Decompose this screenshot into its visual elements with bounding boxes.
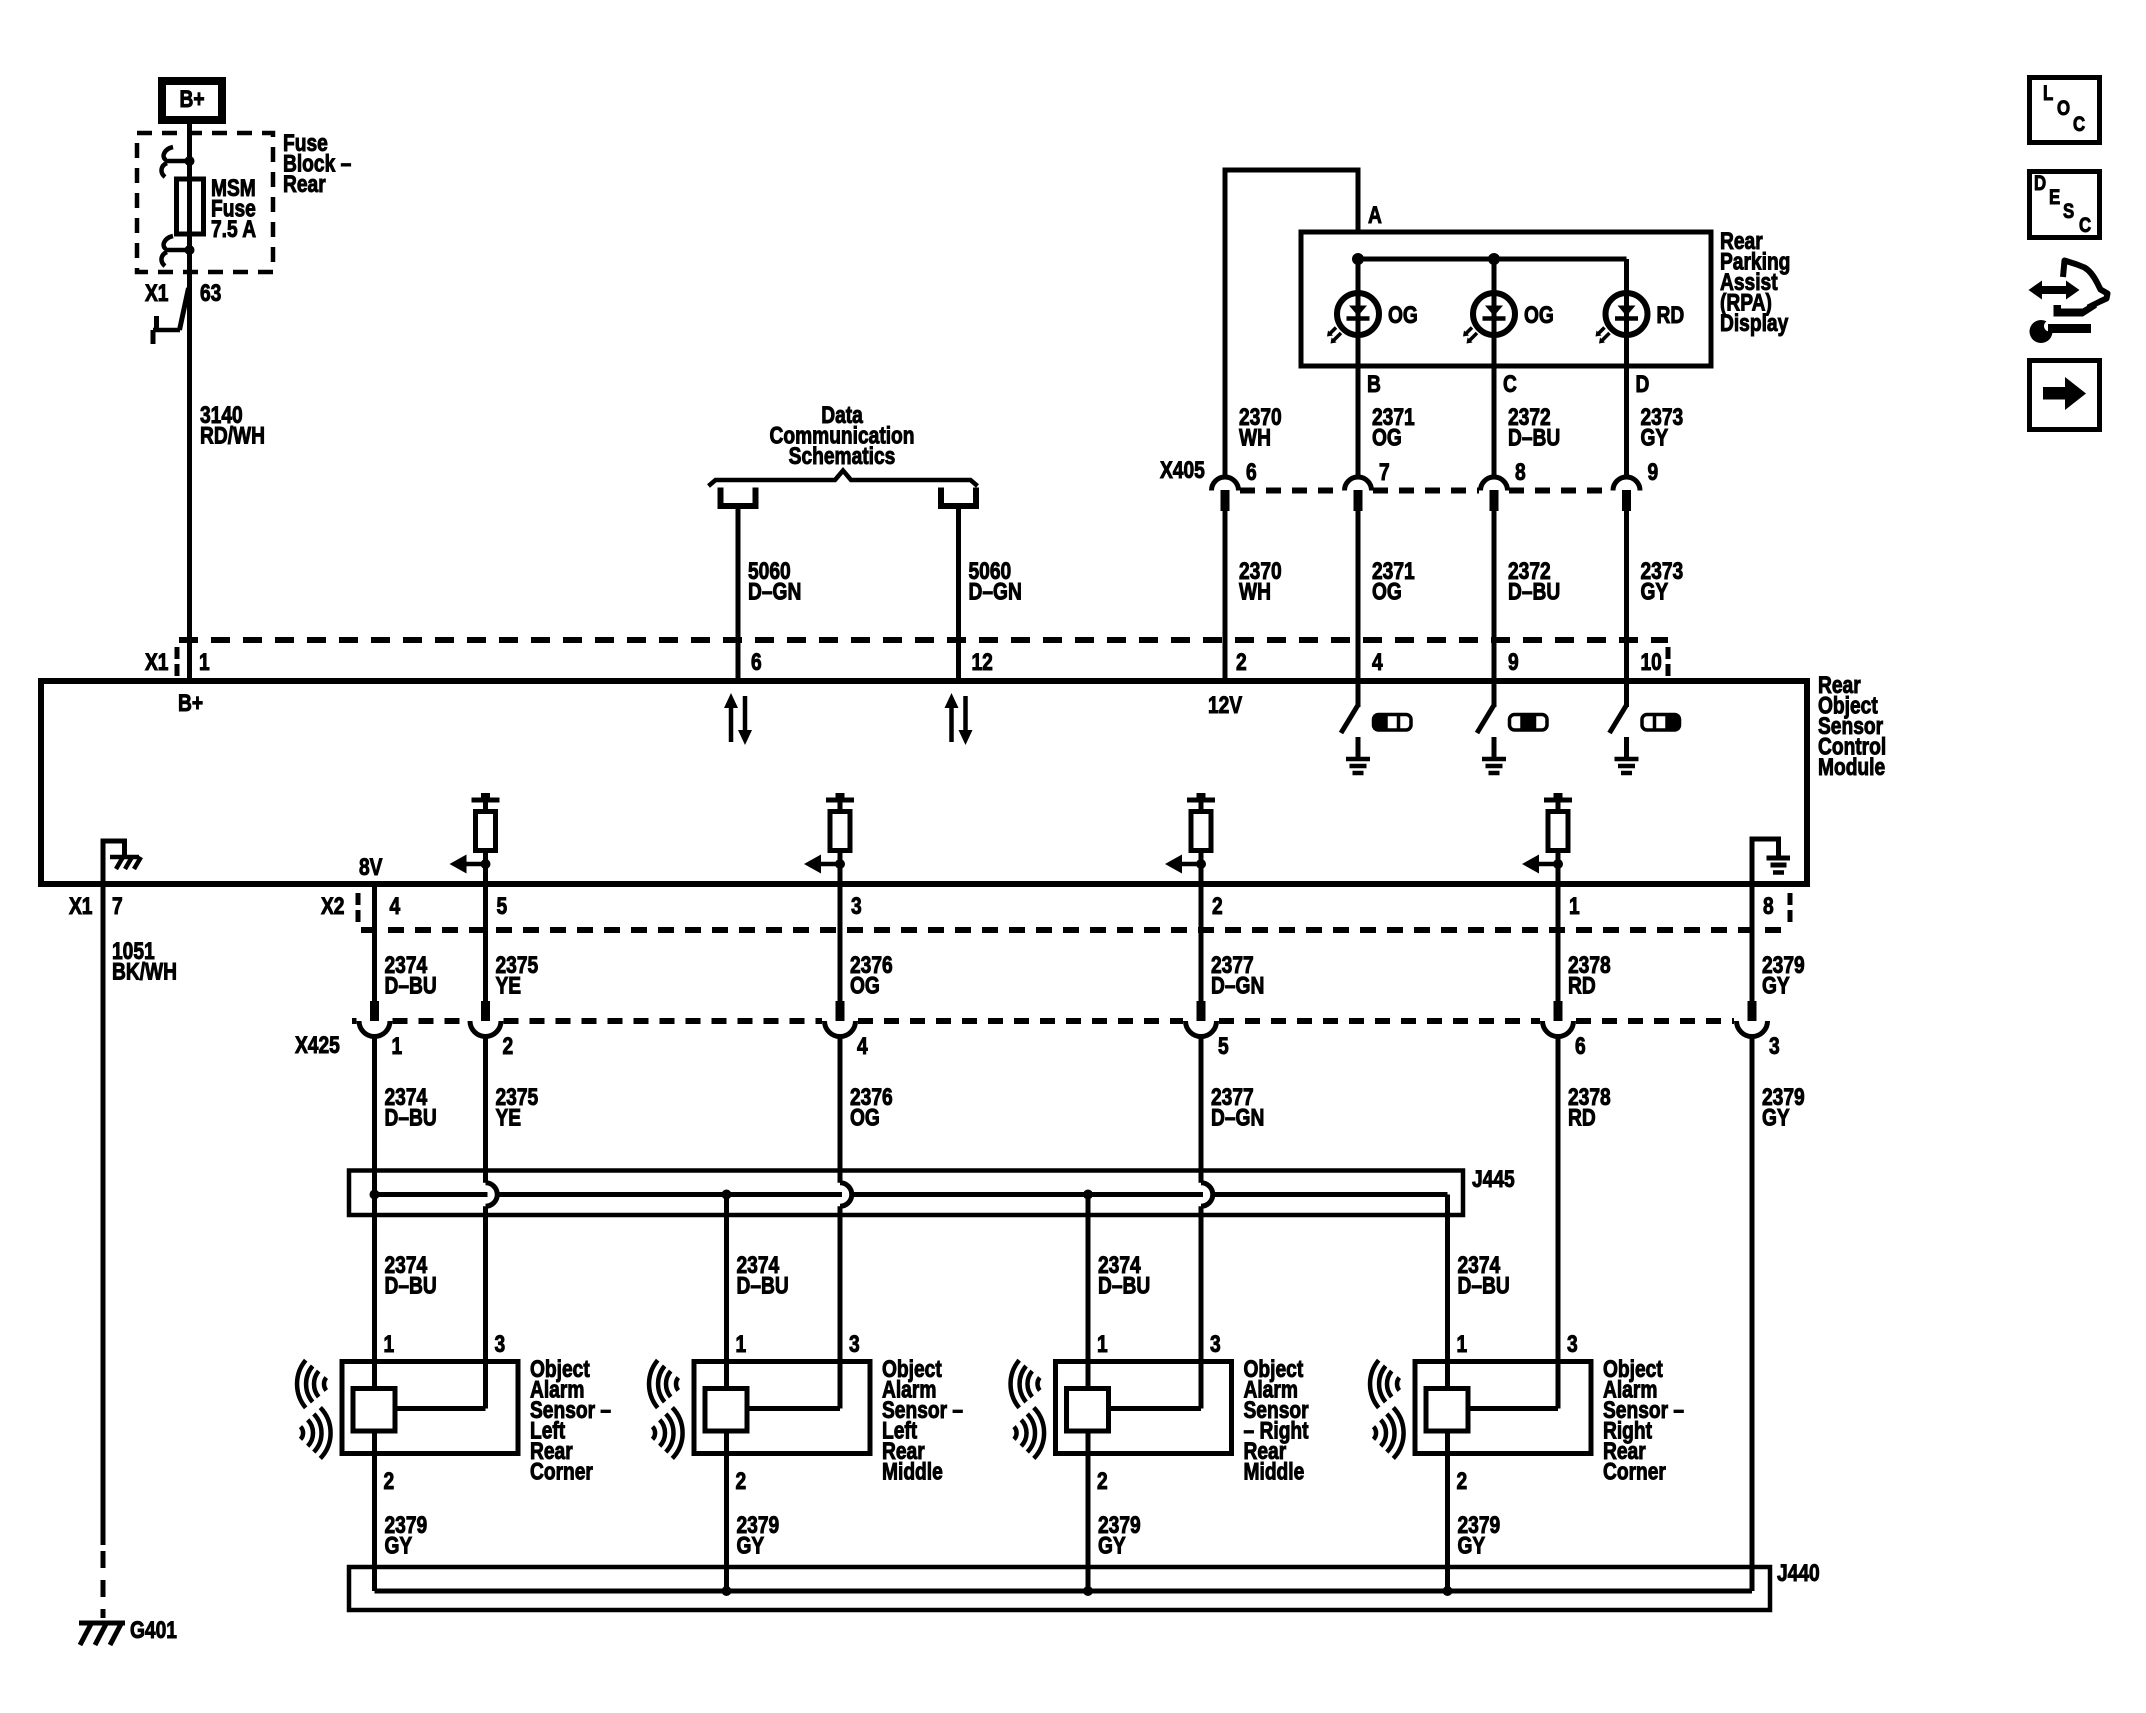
rear object sensor control module box: [41, 681, 1807, 884]
svg-text:GY: GY: [1641, 423, 1669, 451]
connector X425 terminal 3: [1748, 1001, 1757, 1021]
sensor left rear corner transducer square: [353, 1389, 395, 1432]
fuse MSM 7.5A element: [177, 179, 204, 234]
sensor left rear middle internal link: [746, 1406, 840, 1411]
svg-text:Module: Module: [1818, 753, 1885, 781]
sensor right rear middle internal link: [1108, 1406, 1202, 1411]
svg-text:Rear: Rear: [283, 170, 326, 198]
svg-text:OG: OG: [850, 1103, 880, 1131]
module internal data arrows left: [729, 706, 734, 742]
svg-text:E: E: [2049, 186, 2060, 209]
svg-text:X405: X405: [1160, 456, 1205, 484]
svg-text:2: 2: [384, 1467, 395, 1495]
svg-text:5: 5: [497, 892, 508, 920]
brace for data communication: [709, 471, 978, 487]
wire - 2375 YE below X425: [483, 1037, 488, 1183]
wire - 2379 GY sensor left rear corner return: [372, 1431, 377, 1591]
fuse block upper terminal hook: [164, 147, 173, 160]
svg-text:7: 7: [1379, 458, 1390, 486]
wire - 2379 GY sensor right rear middle return: [1086, 1431, 1091, 1591]
connector X425 terminal 6: [1554, 1001, 1563, 1021]
svg-text:X425: X425: [295, 1031, 340, 1059]
svg-text:C: C: [1503, 370, 1517, 398]
connector X2 dashed line: [361, 927, 1787, 933]
splice pack J440 box: [349, 1567, 1770, 1610]
svg-text:1: 1: [1569, 892, 1580, 920]
svg-text:Display: Display: [1720, 309, 1788, 337]
connector X405 terminal 6: [1212, 477, 1239, 491]
wire - 2375 YE module to X425: [483, 884, 488, 1003]
wire - 2379 GY sensor right rear corner return: [1445, 1431, 1450, 1591]
power feed B+ box: [162, 81, 222, 120]
icon vehicle-repair pictogram: [2040, 286, 2068, 294]
junction on J445 at sensor 3 feed: [1083, 1190, 1093, 1200]
svg-text:D–BU: D–BU: [1508, 577, 1560, 605]
svg-text:2: 2: [503, 1032, 514, 1060]
splice pack J445 box: [349, 1171, 1463, 1216]
svg-text:6: 6: [751, 648, 762, 676]
junction on J445 at sensor 1 feed: [370, 1190, 380, 1200]
wire - 2376 OG below X425: [838, 1037, 843, 1183]
svg-text:GY: GY: [1641, 577, 1669, 605]
junction on J440 at sensor 4: [1443, 1586, 1453, 1596]
module internal pull-up resistor (pin 1): [1554, 793, 1563, 799]
display internal supply bus: [1358, 257, 1627, 262]
connector X1 separator right: [1666, 647, 1671, 659]
module internal ground (X2-8): [1752, 839, 1779, 884]
svg-text:D–BU: D–BU: [385, 971, 437, 999]
fuse block - rear dashed outline: [137, 133, 273, 272]
module internal ground (X1-7): [103, 841, 125, 884]
object alarm sensor - right rear corner box: [1415, 1362, 1591, 1454]
svg-text:9: 9: [1508, 648, 1519, 676]
junction on J440 at sensor 2: [722, 1586, 732, 1596]
LED indicator B (OG): [1356, 259, 1361, 366]
wire - 2379 GY sensor left rear middle return: [724, 1431, 729, 1591]
svg-text:1: 1: [1457, 1330, 1468, 1358]
svg-text:10: 10: [1641, 648, 1662, 676]
junction on J440 at sensor 3: [1083, 1586, 1093, 1596]
module internal switch+indicator (pin 10): [1624, 681, 1629, 707]
wire - 1051 BK/WH to ground: [101, 884, 106, 1545]
sensor right rear corner internal link: [1467, 1406, 1558, 1411]
wire - 2372 D-BU display C: [1492, 366, 1497, 478]
svg-text:1: 1: [1097, 1330, 1108, 1358]
svg-text:D–BU: D–BU: [1458, 1271, 1510, 1299]
svg-text:D–BU: D–BU: [1508, 423, 1560, 451]
svg-text:OG: OG: [1524, 301, 1554, 329]
svg-text:3: 3: [1769, 1032, 1780, 1060]
ground G401 symbol: [79, 1621, 125, 1626]
svg-text:B+: B+: [178, 689, 203, 717]
sensor left rear middle ultrasonic waves: [676, 1378, 678, 1391]
wire - 2374 D-BU branch to sensor 3: [1086, 1195, 1091, 1389]
wire - 2374 D–BU module to X425: [372, 884, 377, 1003]
junction on J445 at sensor 2 feed: [722, 1190, 732, 1200]
sensor left rear middle transducer square: [705, 1389, 747, 1432]
svg-text:B+: B+: [179, 85, 204, 113]
svg-text:1: 1: [736, 1330, 747, 1358]
wire - 2378 RD module to X425: [1556, 884, 1561, 1003]
svg-text:X1: X1: [145, 648, 168, 676]
off-page connector stub (left data wire): [721, 488, 756, 507]
svg-text:C: C: [2073, 113, 2085, 136]
LED indicator D (RD): [1624, 259, 1629, 366]
svg-text:1: 1: [199, 648, 210, 676]
svg-text:WH: WH: [1239, 577, 1271, 605]
icon next-page arrow box: [2030, 361, 2100, 430]
svg-text:Middle: Middle: [1244, 1457, 1305, 1485]
svg-text:GY: GY: [385, 1531, 413, 1559]
svg-text:2: 2: [1212, 892, 1223, 920]
connector X1 separator left: [175, 647, 180, 659]
connector X405 terminal 7: [1345, 477, 1372, 491]
module internal pull-up resistor (pin 5): [481, 793, 490, 799]
svg-text:8: 8: [1763, 892, 1774, 920]
svg-text:Middle: Middle: [882, 1457, 943, 1485]
svg-text:B: B: [1367, 370, 1381, 398]
svg-text:Corner: Corner: [1603, 1457, 1666, 1485]
module internal pull-up resistor (pin 2): [1197, 793, 1206, 799]
splice pack J440 bus: [375, 1589, 1753, 1594]
svg-text:D–GN: D–GN: [1211, 971, 1264, 999]
svg-text:D–GN: D–GN: [1211, 1103, 1264, 1131]
svg-text:D–GN: D–GN: [969, 577, 1022, 605]
wire - 2371 OG display B: [1356, 366, 1361, 478]
svg-text:D–BU: D–BU: [1098, 1271, 1150, 1299]
svg-text:GY: GY: [1458, 1531, 1486, 1559]
svg-text:D–GN: D–GN: [748, 577, 801, 605]
LED indicator C (OG): [1492, 259, 1497, 366]
splice pack J445 bus: [375, 1192, 488, 1197]
module internal data arrows right: [949, 706, 954, 742]
wire - display feed (pin A to X405-6 via top run): [1356, 168, 1361, 233]
svg-text:OG: OG: [1372, 577, 1402, 605]
wire - 2374 D-BU branch to sensor 2: [724, 1195, 729, 1389]
svg-text:Schematics: Schematics: [789, 442, 896, 470]
off-page connector stub (right data wire): [941, 488, 976, 507]
sensor right rear corner transducer square: [1426, 1389, 1468, 1432]
svg-text:7.5 A: 7.5 A: [211, 215, 256, 243]
svg-text:D: D: [1636, 370, 1650, 398]
svg-text:O: O: [2057, 97, 2070, 120]
svg-text:12V: 12V: [1208, 691, 1243, 719]
svg-text:3: 3: [495, 1330, 506, 1358]
connector X425 terminal 2: [481, 1001, 490, 1021]
svg-text:D–BU: D–BU: [385, 1271, 437, 1299]
connector X1-63 inline terminal symbol: [180, 288, 189, 330]
svg-text:4: 4: [390, 892, 401, 920]
sensor left rear corner internal link: [394, 1406, 486, 1411]
svg-text:63: 63: [200, 279, 221, 307]
svg-text:8V: 8V: [359, 853, 383, 881]
svg-text:WH: WH: [1239, 423, 1271, 451]
svg-text:2: 2: [736, 1467, 747, 1495]
sensor right rear middle transducer square: [1067, 1389, 1109, 1432]
connector X425 dashed tie line: [352, 1018, 357, 1024]
sensor left rear corner ultrasonic waves: [324, 1378, 326, 1391]
wire - 2376 OG module to X425: [838, 884, 843, 1003]
svg-text:YE: YE: [496, 1103, 522, 1131]
svg-text:J440: J440: [1777, 1559, 1820, 1587]
module internal switch+indicator (pin 9): [1492, 681, 1497, 707]
module internal pull-up resistor (pin 3): [836, 793, 845, 799]
svg-text:L: L: [2043, 82, 2054, 105]
svg-text:GY: GY: [1762, 1103, 1790, 1131]
svg-text:X2: X2: [321, 892, 344, 920]
wire - 2377 D–GN below X425: [1199, 1037, 1204, 1183]
svg-text:2: 2: [1097, 1467, 1108, 1495]
svg-text:J445: J445: [1472, 1165, 1515, 1193]
svg-text:GY: GY: [1098, 1531, 1126, 1559]
wire - 2373 GY display D: [1624, 366, 1629, 478]
svg-text:OG: OG: [1388, 301, 1418, 329]
wire - 2374 D–BU below X425: [372, 1037, 377, 1389]
svg-text:9: 9: [1648, 458, 1659, 486]
svg-text:X1: X1: [69, 892, 92, 920]
svg-text:RD: RD: [1568, 1103, 1596, 1131]
svg-text:3: 3: [1210, 1330, 1221, 1358]
svg-text:7: 7: [112, 892, 123, 920]
connector X425 terminal 5: [1197, 1001, 1206, 1021]
svg-text:S: S: [2063, 200, 2074, 223]
icon LOC box: [2030, 78, 2100, 143]
object alarm sensor - left rear middle box: [694, 1362, 870, 1454]
svg-text:GY: GY: [1762, 971, 1790, 999]
object alarm sensor - right rear middle box: [1056, 1362, 1232, 1454]
svg-text:5: 5: [1218, 1032, 1229, 1060]
svg-text:Corner: Corner: [530, 1457, 593, 1485]
svg-text:3: 3: [851, 892, 862, 920]
svg-text:A: A: [1368, 201, 1382, 229]
connector X405 terminal 8: [1481, 477, 1508, 491]
svg-text:G401: G401: [130, 1616, 177, 1644]
svg-text:D–BU: D–BU: [385, 1103, 437, 1131]
fuse block lower terminal hook: [164, 236, 173, 249]
svg-text:3: 3: [1567, 1330, 1578, 1358]
svg-text:12: 12: [972, 648, 993, 676]
wire - 2370 WH to module pin 2: [1223, 511, 1228, 681]
svg-text:YE: YE: [496, 971, 522, 999]
wire - 2379 GY module to X425: [1750, 884, 1755, 1003]
svg-text:D: D: [2034, 172, 2046, 195]
svg-text:1: 1: [384, 1330, 395, 1358]
module internal switch+indicator (pin 4): [1356, 681, 1361, 707]
sensor right rear corner ultrasonic waves: [1397, 1378, 1399, 1391]
connector X2 separator: [356, 893, 361, 905]
svg-text:4: 4: [1372, 648, 1383, 676]
connector X1 dashed line: [179, 637, 1668, 643]
svg-text:8: 8: [1515, 458, 1526, 486]
connector X405 terminal 9: [1613, 477, 1640, 491]
sensor right rear middle ultrasonic waves: [1037, 1378, 1039, 1391]
wire - serial data 5060 D-GN left: [736, 506, 741, 681]
object alarm sensor - left rear corner box: [342, 1362, 518, 1454]
svg-text:RD/WH: RD/WH: [200, 421, 265, 449]
svg-text:3: 3: [849, 1330, 860, 1358]
svg-text:D–BU: D–BU: [737, 1271, 789, 1299]
connector X2 separator right: [1788, 893, 1793, 905]
svg-text:6: 6: [1246, 458, 1257, 486]
svg-text:1: 1: [392, 1032, 403, 1060]
connector X425 terminal 1: [370, 1001, 379, 1021]
connector X425 terminal 4: [836, 1001, 845, 1021]
wire - 2378 RD below X425: [1556, 1037, 1561, 1409]
wire - 2374 D-BU branch to sensor 4: [1445, 1195, 1450, 1389]
svg-text:RD: RD: [1657, 301, 1685, 329]
svg-text:X1: X1: [145, 279, 168, 307]
rear parking assist display box: [1301, 232, 1711, 366]
wire - B+ feed 3140 RD/WH vertical: [187, 124, 192, 681]
svg-text:4: 4: [857, 1032, 868, 1060]
svg-text:BK/WH: BK/WH: [112, 957, 177, 985]
svg-text:C: C: [2079, 214, 2091, 237]
svg-text:6: 6: [1575, 1032, 1586, 1060]
wire - 2379 GY below X425: [1750, 1037, 1755, 1592]
svg-text:RD: RD: [1568, 971, 1596, 999]
svg-text:2: 2: [1236, 648, 1247, 676]
wire - 2377 D–GN module to X425: [1199, 884, 1204, 1003]
connector X405 dashed tie line: [1240, 488, 1343, 494]
svg-text:2: 2: [1457, 1467, 1468, 1495]
svg-text:OG: OG: [1372, 423, 1402, 451]
icon DESC box: [2030, 172, 2100, 238]
wire - serial data 5060 D-GN right: [956, 506, 961, 681]
svg-text:OG: OG: [850, 971, 880, 999]
svg-text:GY: GY: [737, 1531, 765, 1559]
